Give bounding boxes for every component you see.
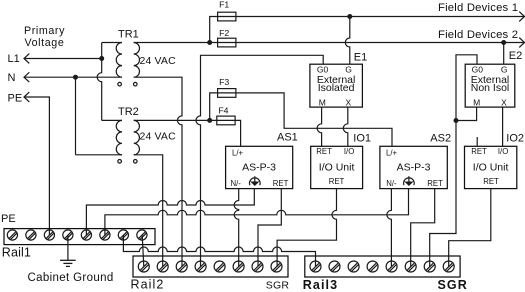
svg-text:24 VAC: 24 VAC <box>140 131 177 143</box>
transformer TR2 primary winding <box>116 120 122 154</box>
transformer TR1 secondary winding <box>134 43 140 78</box>
svg-text:N/-: N/- <box>386 179 397 188</box>
TR2 polarity dot secondary <box>134 160 138 164</box>
wire TR2 primary bottom <box>76 154 123 156</box>
svg-text:G: G <box>345 65 352 75</box>
svg-text:IO1: IO1 <box>353 132 371 144</box>
Rail2 terminal 3 <box>176 261 187 272</box>
wire E2 M tie to G0 <box>456 107 477 120</box>
svg-text:F2: F2 <box>219 28 229 38</box>
wire N column down to TR2 primary bottom <box>75 77 77 155</box>
svg-text:G: G <box>501 65 508 75</box>
wire TR2 secondary top row through F4 down to AS1 L+ <box>134 120 241 146</box>
svg-text:I/O Unit: I/O Unit <box>319 162 355 174</box>
junction dot F3/F4 <box>207 118 212 123</box>
wire E1 M to IO1 RET with hop <box>317 107 322 146</box>
svg-text:Cabinet Ground: Cabinet Ground <box>28 272 114 284</box>
AS2 earth icon <box>404 176 415 186</box>
wire L1 input line <box>24 58 102 60</box>
wire Rail1 terminal 8 to Rail2 terminal 1 <box>142 235 144 267</box>
svg-text:RET: RET <box>273 179 289 188</box>
junction dot L1/TR column <box>99 56 104 61</box>
Rail2 terminal 8 <box>271 261 282 272</box>
wire E2 G0 loop down to Rail3 terminal 7 <box>430 55 477 267</box>
arrow Field Devices 1 <box>519 12 524 22</box>
arrow Field Devices 2 <box>519 38 524 48</box>
wire TR1 secondary bottom down to Rail2 terminal 3 with hop at TR2 row <box>134 77 182 266</box>
svg-text:RET: RET <box>483 177 499 186</box>
svg-text:I/O: I/O <box>498 147 508 156</box>
Rail1 terminal 1 <box>7 230 17 240</box>
transformer TR2 secondary winding <box>134 120 140 154</box>
wire F1 feed and F1 row / Field Devices 1 <box>210 17 524 43</box>
svg-text:N: N <box>8 72 16 84</box>
junction dot F1/F2 <box>207 40 212 45</box>
svg-text:E2: E2 <box>509 50 522 62</box>
arrow PE <box>24 92 29 102</box>
wire E1 G from Field Devices 1 with hop over row 2 <box>345 17 350 65</box>
module IO2 box I/O Unit <box>465 146 517 188</box>
svg-text:I/O Unit: I/O Unit <box>473 162 509 174</box>
svg-text:TR2: TR2 <box>118 106 139 118</box>
svg-text:I/O: I/O <box>344 147 354 156</box>
svg-text:Non Isol: Non Isol <box>471 82 510 94</box>
svg-text:F4: F4 <box>218 106 228 116</box>
svg-text:AS-P-3: AS-P-3 <box>397 162 431 174</box>
Rail2 terminal 5 <box>214 261 225 272</box>
wire W_a Rail1 terminal 5 to AS1 earth with hops <box>86 189 254 235</box>
wire AS2 RET down to Rail3 terminal 6 <box>411 189 435 267</box>
svg-text:AS1: AS1 <box>277 132 298 144</box>
svg-text:RET: RET <box>316 147 332 156</box>
wire L1 column to TR1/TR2 primary tops with hop over N line <box>97 43 101 121</box>
module AS1 box AS-P-3 <box>226 146 293 188</box>
wire W_b Rail1 terminal 6 to AS2 earth with hops <box>105 189 409 235</box>
Rail2 terminal 7 <box>252 261 263 272</box>
Rail2 terminal 1 <box>138 261 149 272</box>
svg-text:G0: G0 <box>317 65 329 75</box>
svg-text:L1: L1 <box>8 53 20 65</box>
svg-text:N/-: N/- <box>231 179 242 188</box>
AS1 earth icon <box>250 176 261 186</box>
svg-text:Rail1: Rail1 <box>2 246 31 260</box>
svg-text:RET: RET <box>329 177 345 186</box>
svg-text:Rail3: Rail3 <box>303 278 338 292</box>
svg-text:Rail2: Rail2 <box>131 277 165 291</box>
wire W_sgr Rail1 terminal 7 to Rail3 terminal 1 with hops <box>123 235 315 267</box>
TR2 polarity dot primary <box>118 160 122 164</box>
fuse F1 <box>218 12 236 21</box>
svg-text:F1: F1 <box>219 0 229 9</box>
wire cabinet ground from Rail1 terminal 4 <box>67 235 69 260</box>
wire E2 X to IO2 I/O <box>502 107 504 146</box>
svg-text:IO2: IO2 <box>506 132 524 144</box>
svg-text:Primary: Primary <box>24 25 65 37</box>
svg-text:L/+: L/+ <box>232 148 244 157</box>
wire TR2 secondary bottom down to Rail2 terminal 2 <box>134 155 163 267</box>
Rail3 terminal 7 <box>424 261 435 272</box>
arrow L1 <box>24 54 29 64</box>
Rail3 terminal 3 <box>348 261 359 272</box>
fuse F4 <box>217 116 235 125</box>
svg-text:X: X <box>501 97 507 107</box>
power supply E1 box <box>310 64 363 107</box>
junction dot N column <box>73 75 78 80</box>
Rail3 terminal 2 <box>329 261 340 272</box>
power supply E2 box <box>465 64 515 107</box>
arrow N <box>24 72 29 82</box>
TR1 polarity dot primary <box>118 82 122 86</box>
Rail2 terminal 6 <box>233 261 244 272</box>
svg-text:TR1: TR1 <box>118 29 139 41</box>
wire IO2 RET bottom down to Rail3 terminal 8 <box>449 189 491 267</box>
transformer TR1 primary winding <box>116 43 122 78</box>
junction dot row2 E2 G <box>501 40 506 45</box>
svg-text:Field Devices 2: Field Devices 2 <box>438 29 518 41</box>
module IO1 box I/O Unit <box>311 146 363 188</box>
Rail2 terminal 2 <box>157 261 168 272</box>
module AS2 box AS-P-3 <box>380 146 447 188</box>
Rail3 terminal 6 <box>405 261 416 272</box>
svg-text:Voltage: Voltage <box>25 37 65 49</box>
wire AS1 RET down to Rail2 terminal 7 <box>258 189 281 267</box>
svg-text:M: M <box>319 97 326 107</box>
TR1 polarity dot secondary <box>134 82 138 86</box>
wire IO1 RET bottom down to Rail2 terminal 8 with hop <box>277 189 336 267</box>
svg-text:X: X <box>345 97 351 107</box>
Rail1 terminal 5 <box>81 230 91 240</box>
Rail3 terminal 4 <box>367 261 378 272</box>
svg-text:RET: RET <box>427 179 443 188</box>
Rail1 terminal 4 <box>63 230 73 240</box>
wire E1 G0 feed down to Rail2 terminal 4 with hop at TR2 row <box>196 55 323 266</box>
Rail3 terminal 5 <box>386 261 397 272</box>
wire AS1 N- down to Rail2 terminal 6 with two hops <box>234 189 239 267</box>
terminal rail Rail2 box <box>133 256 288 277</box>
svg-text:PE: PE <box>1 213 16 225</box>
wire TR2 primary top <box>102 119 122 121</box>
svg-text:PE: PE <box>8 93 23 105</box>
ground cabinet ground symbol <box>60 260 76 266</box>
svg-text:24 VAC: 24 VAC <box>140 55 177 67</box>
svg-text:SGR: SGR <box>438 278 468 292</box>
wire AS2 N- down to Rail3 terminal 5 with hop <box>387 189 392 267</box>
Rail1 terminal 6 <box>100 230 110 240</box>
Rail2 terminal 4 <box>195 261 206 272</box>
Rail3 terminal 8 <box>443 261 454 272</box>
svg-text:AS-P-3: AS-P-3 <box>242 162 276 174</box>
Rail1 terminal 8 <box>137 230 147 240</box>
wire E1 X to IO1 I/O with hop <box>343 107 348 146</box>
wire PE input line down to Rail1 terminal 3 <box>24 97 49 235</box>
wire N input line to TR1 primary bottom <box>24 76 122 78</box>
wire TR1 secondary top / F2 row / Field Devices 2 <box>134 42 524 44</box>
svg-text:L/+: L/+ <box>386 148 398 157</box>
svg-text:M: M <box>473 97 480 107</box>
svg-text:F3: F3 <box>219 77 229 87</box>
Rail1 terminal 7 <box>118 230 128 240</box>
Rail1 terminal 2 <box>26 230 36 240</box>
Rail3 terminal 1 <box>310 261 321 272</box>
junction dot E2 G0/M <box>454 118 459 123</box>
junction dot row1 E1 G <box>347 14 352 19</box>
fuse F3 <box>218 89 236 98</box>
svg-text:RET: RET <box>471 147 487 156</box>
svg-text:E1: E1 <box>354 52 367 64</box>
terminal rail Rail1 box <box>4 229 155 245</box>
svg-text:AS2: AS2 <box>430 132 451 144</box>
svg-text:Field Devices 1: Field Devices 1 <box>438 2 518 14</box>
svg-text:Isolated: Isolated <box>318 82 355 94</box>
fuse F2 <box>218 38 236 47</box>
wire F3 feed from F4 row, F3 row to AS2 L+ <box>210 93 392 146</box>
Rail1 terminal 3 <box>44 230 54 240</box>
svg-text:SGR: SGR <box>266 279 290 291</box>
wire E2 G from Field Devices 2 <box>503 43 505 65</box>
svg-text:G0: G0 <box>472 65 484 75</box>
wire IO2 RET top stub <box>476 137 478 146</box>
wire TR1 primary top <box>102 42 122 44</box>
terminal rail Rail3 box <box>305 256 460 277</box>
